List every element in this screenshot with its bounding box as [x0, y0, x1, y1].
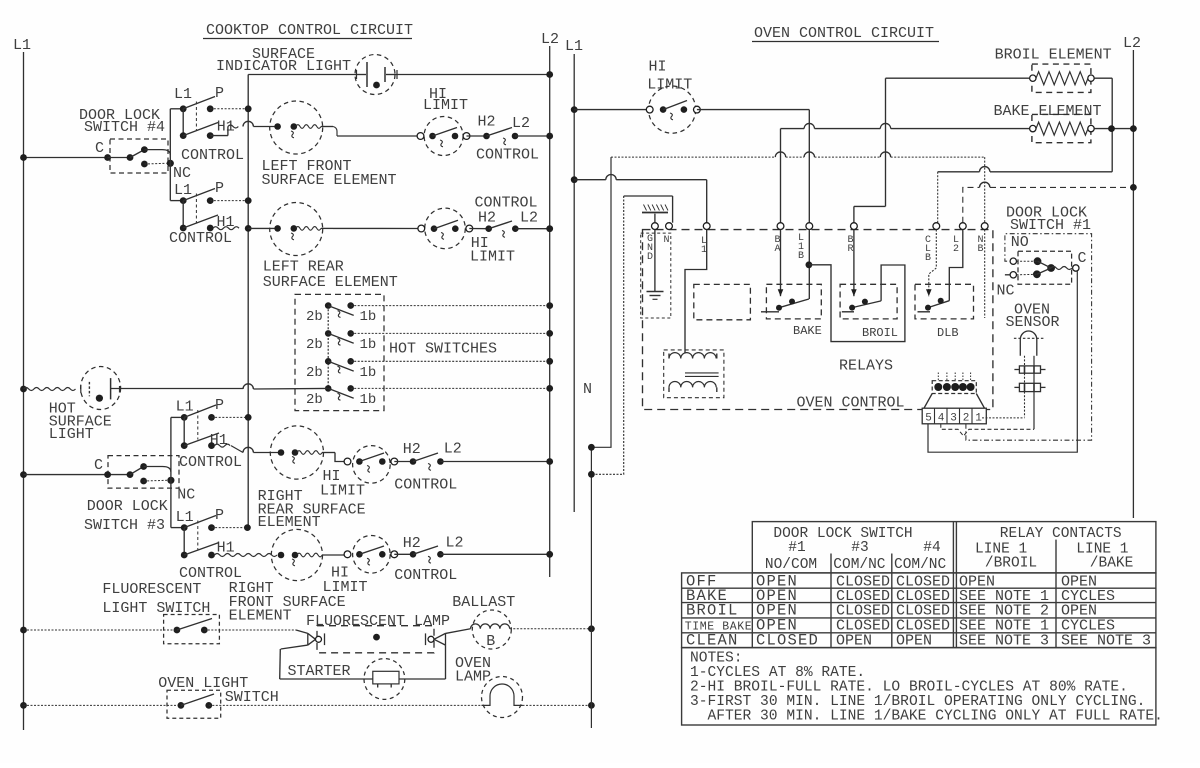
svg-text:SEE NOTE 3: SEE NOTE 3 [959, 633, 1049, 650]
svg-text:LAMP: LAMP [455, 668, 491, 685]
svg-text:/BROIL: /BROIL [985, 556, 1037, 572]
svg-text:SEE NOTE 3: SEE NOTE 3 [1061, 633, 1151, 650]
svg-text:OPEN: OPEN [836, 633, 872, 650]
wire P-line vertical [247, 75, 249, 528]
svg-text:L2: L2 [444, 441, 462, 458]
svg-text:CLOSED: CLOSED [756, 632, 819, 650]
svg-text:C: C [1078, 250, 1087, 267]
wire broil element right to L2 loop [1094, 77, 1112, 79]
svg-text:DLB: DLB [937, 326, 959, 340]
connector 5-pin plug [932, 381, 976, 394]
wire H1 to right rear element [215, 444, 231, 447]
wire hi-limit to terminal L1B [697, 109, 809, 111]
svg-text:RELAY CONTACTS: RELAY CONTACTS [1000, 526, 1122, 542]
svg-text:#1: #1 [788, 540, 805, 556]
svg-text:L2: L2 [520, 209, 538, 226]
oven control box [643, 230, 993, 410]
svg-text:A: A [775, 244, 781, 255]
wire to terminal CLB [990, 171, 1112, 173]
svg-text:1b: 1b [360, 309, 377, 325]
wire hot switch 4 to L2 bus [351, 387, 550, 389]
wire pin5 to door lock C [928, 271, 1077, 452]
svg-text:SWITCH: SWITCH [225, 689, 279, 706]
svg-text:BROIL: BROIL [862, 326, 898, 340]
wire H1 to left front element [228, 125, 238, 128]
table door lock switch / relay contacts [682, 522, 1156, 725]
svg-text:B: B [486, 633, 495, 650]
switch H2/L2 control (left rear) [469, 228, 488, 230]
svg-text:STARTER: STARTER [288, 663, 351, 680]
svg-text:P: P [215, 507, 224, 524]
svg-text:H2: H2 [403, 441, 421, 458]
terminal L2 [959, 223, 966, 230]
svg-text:CONTROL: CONTROL [394, 476, 457, 493]
svg-text:B: B [925, 253, 931, 264]
svg-text:LIMIT: LIMIT [470, 249, 515, 266]
svg-text:LIMIT: LIMIT [647, 76, 692, 93]
wire hot surface light to hot switches [253, 387, 327, 390]
wire starter loop [281, 645, 308, 649]
hi-limit switch (right rear) [353, 446, 391, 484]
svg-text:1b: 1b [360, 392, 377, 408]
wire pin2 to door lock NO [966, 234, 1092, 441]
svg-text:P: P [215, 85, 224, 102]
element RIGHT REAR SURFACE ELEMENT [270, 426, 323, 479]
terminal CLB [933, 223, 940, 230]
svg-text:C: C [94, 457, 103, 474]
wire hot switches left column [327, 306, 329, 389]
wire H1 to left rear element [213, 227, 239, 230]
svg-text:CONTROL: CONTROL [181, 147, 244, 164]
wire element to hi-limit row C [333, 227, 421, 229]
switch CONTROL (right front) L1/P/H1 [171, 527, 184, 529]
svg-text:P: P [215, 397, 224, 414]
junction L2 row A [546, 71, 553, 78]
svg-text:L1: L1 [176, 399, 194, 416]
switch H2/L2 control (left front) [467, 135, 487, 137]
terminal NB [981, 223, 988, 230]
svg-text:NC: NC [173, 165, 191, 182]
svg-text:L1: L1 [13, 37, 31, 54]
switch H2/L2 control (right rear) [394, 461, 413, 463]
element LEFT REAR SURFACE ELEMENT [270, 203, 323, 256]
svg-text:N: N [583, 381, 592, 398]
switch CONTROL (left rear) L1/P/H1 [170, 200, 183, 202]
element RIGHT FRONT SURFACE ELEMENT [271, 529, 322, 580]
svg-text:COM/NC: COM/NC [833, 557, 886, 573]
svg-text:1b: 1b [360, 337, 377, 353]
svg-text:OVEN CONTROL: OVEN CONTROL [797, 395, 905, 412]
svg-text:C: C [95, 140, 104, 157]
wire terminal NB inside box [984, 230, 986, 319]
svg-text:#4: #4 [923, 540, 940, 556]
terminal BR [851, 223, 858, 230]
svg-text:BROIL ELEMENT: BROIL ELEMENT [995, 46, 1112, 63]
svg-text:L1: L1 [176, 509, 194, 526]
svg-text:BROIL: BROIL [686, 602, 739, 620]
svg-text:CONTROL: CONTROL [476, 147, 539, 164]
svg-text:NC: NC [997, 283, 1015, 300]
svg-text:LIMIT: LIMIT [323, 579, 368, 596]
svg-text:L2: L2 [541, 31, 559, 48]
svg-text:COM/NC: COM/NC [894, 557, 947, 573]
switch H2/L2 control (right front) [394, 553, 413, 555]
svg-text:L2: L2 [512, 115, 530, 132]
relay (unused) [694, 284, 751, 319]
svg-text:L1: L1 [565, 38, 583, 55]
svg-text:2b: 2b [306, 337, 323, 353]
svg-text:DOOR LOCK: DOOR LOCK [87, 498, 168, 515]
svg-text:L1: L1 [174, 182, 192, 199]
svg-text:R: R [848, 244, 854, 255]
svg-text:N: N [664, 235, 670, 246]
ground symbol above box [654, 214, 656, 223]
wire transformer neutral loop [591, 196, 623, 474]
svg-text:1: 1 [975, 413, 982, 425]
wire broil element left to terminal BR [886, 77, 1030, 79]
svg-text:1b: 1b [360, 365, 377, 381]
svg-text:L2: L2 [1123, 35, 1141, 52]
wire indicator row [248, 74, 355, 76]
svg-text:ELEMENT: ELEMENT [258, 514, 321, 531]
svg-text:2: 2 [953, 244, 959, 255]
svg-text:OPEN: OPEN [896, 633, 932, 650]
svg-text:H1: H1 [217, 119, 235, 136]
wire pin1 to oven sensor [982, 417, 1025, 419]
svg-text:B: B [798, 251, 804, 262]
connector terminal strip 5 4 3 2 1 [922, 408, 986, 424]
terminal L1 [703, 223, 710, 230]
svg-text:5: 5 [925, 413, 932, 425]
svg-text:3: 3 [950, 413, 957, 425]
svg-text:BAKE ELEMENT: BAKE ELEMENT [994, 103, 1102, 120]
svg-text:4: 4 [938, 413, 945, 425]
svg-text:NC: NC [177, 487, 195, 504]
svg-text:SURFACE ELEMENT: SURFACE ELEMENT [262, 172, 397, 189]
svg-text:LEFT REAR: LEFT REAR [263, 259, 344, 276]
svg-text:ELEMENT: ELEMENT [229, 608, 292, 625]
wire ballast to N [510, 628, 592, 630]
svg-text:2b: 2b [306, 392, 323, 408]
svg-text:NO: NO [1011, 234, 1029, 251]
hi-limit switch (right front) [353, 536, 391, 574]
svg-text:H2: H2 [478, 209, 496, 226]
wire hot switch 1 to L2 bus [351, 305, 550, 307]
svg-text:P: P [215, 180, 224, 197]
wire element to hi-limit row B [337, 135, 421, 137]
svg-text:OVEN CONTROL CIRCUIT: OVEN CONTROL CIRCUIT [754, 25, 934, 42]
transformer [664, 350, 724, 398]
svg-text:CLEAN: CLEAN [686, 632, 739, 650]
svg-text:HI: HI [649, 59, 667, 76]
wire bake element left to terminal BA [891, 128, 1030, 130]
ground symbol inside box [641, 233, 671, 318]
wire bake element to L2 bus [1094, 128, 1133, 130]
svg-text:SWITCH #4: SWITCH #4 [84, 119, 165, 136]
wire hot switch 2 to L2 bus [351, 332, 550, 334]
svg-text:RELAYS: RELAYS [839, 357, 893, 374]
svg-text:CONTROL: CONTROL [179, 454, 242, 471]
svg-text:H2: H2 [478, 114, 496, 131]
svg-text:SWITCH #3: SWITCH #3 [84, 517, 165, 534]
svg-text:LIMIT: LIMIT [320, 483, 365, 500]
svg-text:/BAKE: /BAKE [1090, 556, 1134, 572]
element LEFT FRONT SURFACE ELEMENT [270, 101, 323, 154]
svg-text:CONTROL: CONTROL [394, 567, 457, 584]
wire oven sensor leads [1024, 356, 1026, 366]
svg-text:#3: #3 [851, 540, 868, 556]
svg-text:L1: L1 [174, 86, 192, 103]
svg-text:BAKE: BAKE [793, 324, 822, 338]
svg-text:2: 2 [963, 413, 970, 425]
svg-text:NO/COM: NO/COM [765, 557, 817, 573]
svg-text:FLUORESCENT: FLUORESCENT [102, 581, 201, 598]
svg-text:SENSOR: SENSOR [1006, 314, 1060, 331]
terminal BA [777, 223, 784, 230]
svg-text:LIGHT: LIGHT [49, 426, 94, 443]
terminal N [666, 223, 673, 230]
svg-text:INDICATOR LIGHT: INDICATOR LIGHT [216, 58, 351, 75]
svg-text:CONTROL: CONTROL [169, 230, 232, 247]
svg-text:2b: 2b [306, 309, 323, 325]
svg-text:COOKTOP CONTROL CIRCUIT: COOKTOP CONTROL CIRCUIT [206, 22, 413, 39]
wire door lock #4 to control switches [169, 109, 171, 201]
svg-text:D: D [647, 252, 653, 263]
svg-text:B: B [978, 244, 984, 255]
wire bake relay common to broil relay [809, 265, 905, 342]
svg-text:FLUORESCENT LAMP: FLUORESCENT LAMP [306, 613, 450, 630]
svg-text:2b: 2b [306, 365, 323, 381]
wire door lock #3 to control switches [170, 417, 172, 527]
svg-text:L2: L2 [446, 534, 464, 551]
wire hot switch 3 to L2 bus [351, 360, 550, 362]
terminal L1B [806, 223, 813, 230]
svg-text:AFTER 30 MIN. LINE 1/BAKE CYCL: AFTER 30 MIN. LINE 1/BAKE CYCLING ONLY A… [708, 709, 1163, 725]
wire terminal L2 to L2 bus [963, 187, 980, 222]
terminal GND [652, 223, 659, 230]
svg-text:BALLAST: BALLAST [452, 594, 515, 611]
svg-text:HOT SWITCHES: HOT SWITCHES [389, 341, 497, 358]
wire H1 to right front element [215, 554, 277, 557]
wire terminal L1 into transformer [685, 230, 707, 354]
svg-text:SWITCH #1: SWITCH #1 [1010, 217, 1091, 234]
wire L1 bus to terminal L1 [571, 176, 578, 183]
wire N distribution to terminal NB [611, 156, 775, 158]
svg-text:LIMIT: LIMIT [423, 97, 468, 114]
wire pin4 to oven sensor [941, 424, 1034, 436]
svg-text:H2: H2 [403, 535, 421, 552]
svg-text:SURFACE ELEMENT: SURFACE ELEMENT [263, 274, 398, 291]
